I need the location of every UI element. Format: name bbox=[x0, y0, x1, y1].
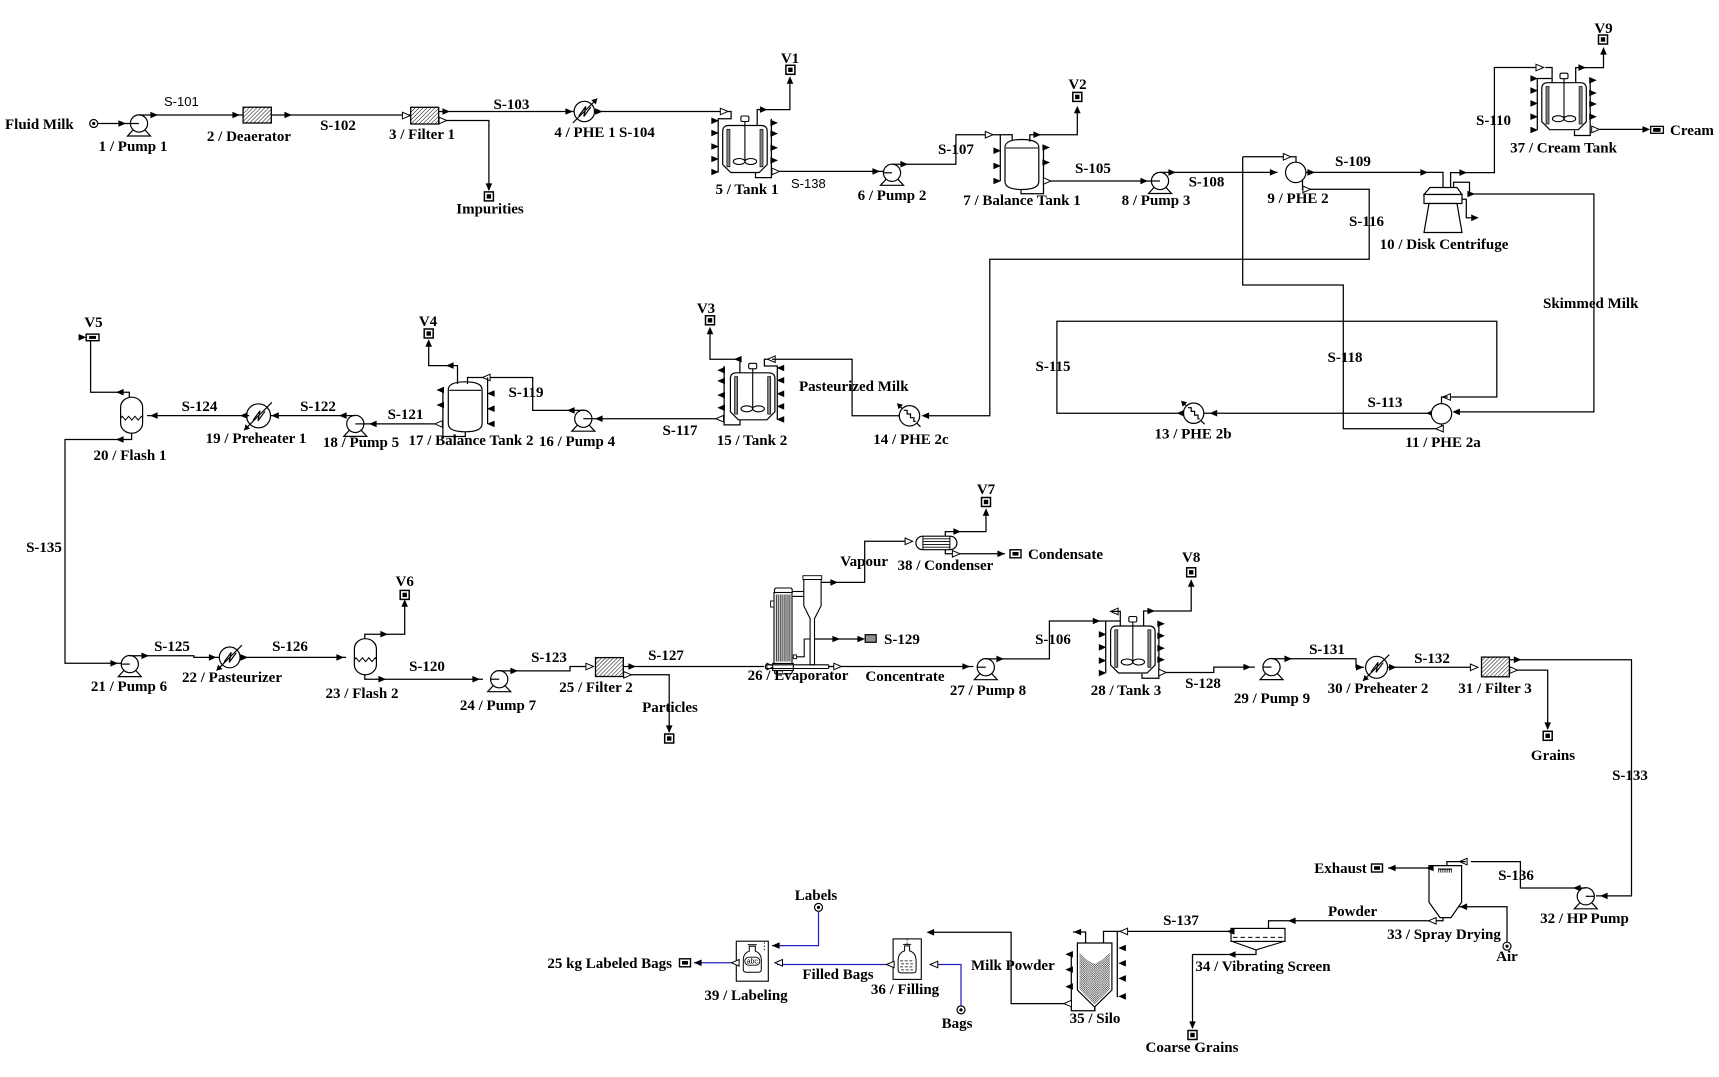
svg-text:V6: V6 bbox=[396, 574, 415, 590]
svg-text:V4: V4 bbox=[419, 314, 438, 330]
svg-text:S-127: S-127 bbox=[648, 648, 684, 664]
svg-text:S-108: S-108 bbox=[1189, 175, 1225, 191]
svg-text:S-105: S-105 bbox=[1075, 161, 1111, 177]
svg-text:S-133: S-133 bbox=[1612, 768, 1648, 784]
svg-text:Powder: Powder bbox=[1328, 904, 1377, 920]
svg-text:abc: abc bbox=[747, 959, 759, 966]
svg-text:S-113: S-113 bbox=[1367, 395, 1402, 411]
svg-text:16 / Pump 4: 16 / Pump 4 bbox=[539, 434, 616, 450]
svg-text:S-101: S-101 bbox=[164, 94, 199, 109]
svg-text:7 / Balance Tank 1: 7 / Balance Tank 1 bbox=[963, 193, 1081, 209]
svg-text:S-107: S-107 bbox=[938, 142, 974, 158]
svg-text:13 / PHE 2b: 13 / PHE 2b bbox=[1154, 427, 1231, 443]
svg-text:S-129: S-129 bbox=[884, 632, 920, 648]
svg-text:14 / PHE 2c: 14 / PHE 2c bbox=[873, 432, 949, 448]
svg-text:34 / Vibrating Screen: 34 / Vibrating Screen bbox=[1195, 959, 1331, 975]
svg-text:35 / Silo: 35 / Silo bbox=[1070, 1011, 1121, 1027]
svg-text:33 / Spray Drying: 33 / Spray Drying bbox=[1387, 927, 1501, 943]
svg-text:10 / Disk Centrifuge: 10 / Disk Centrifuge bbox=[1380, 237, 1509, 253]
svg-text:24 / Pump 7: 24 / Pump 7 bbox=[460, 698, 537, 714]
svg-text:Particles: Particles bbox=[642, 700, 698, 716]
svg-text:S-118: S-118 bbox=[1327, 350, 1362, 366]
svg-text:S-126: S-126 bbox=[272, 639, 308, 655]
svg-text:S-128: S-128 bbox=[1185, 676, 1221, 692]
svg-text:S-115: S-115 bbox=[1035, 359, 1070, 375]
svg-text:36 / Filling: 36 / Filling bbox=[871, 982, 940, 998]
svg-text:S-125: S-125 bbox=[154, 639, 190, 655]
svg-text:V7: V7 bbox=[977, 482, 996, 498]
svg-text:S-117: S-117 bbox=[662, 423, 698, 439]
svg-text:19 / Preheater 1: 19 / Preheater 1 bbox=[206, 431, 307, 447]
svg-text:20 / Flash 1: 20 / Flash 1 bbox=[94, 448, 167, 464]
svg-text:Skimmed Milk: Skimmed Milk bbox=[1543, 296, 1639, 312]
svg-text:S-122: S-122 bbox=[300, 399, 336, 415]
svg-text:Impurities: Impurities bbox=[456, 202, 524, 218]
svg-text:29 / Pump 9: 29 / Pump 9 bbox=[1234, 691, 1310, 707]
svg-text:V3: V3 bbox=[697, 301, 715, 317]
svg-text:S-131: S-131 bbox=[1309, 642, 1345, 658]
svg-text:38 / Condenser: 38 / Condenser bbox=[898, 558, 994, 574]
svg-text:31 / Filter 3: 31 / Filter 3 bbox=[1458, 681, 1531, 697]
svg-text:S-110: S-110 bbox=[1476, 113, 1511, 129]
svg-text:Milk Powder: Milk Powder bbox=[971, 958, 1055, 974]
svg-text:11 / PHE 2a: 11 / PHE 2a bbox=[1405, 435, 1481, 451]
svg-text:22 / Pasteurizer: 22 / Pasteurizer bbox=[182, 670, 282, 686]
svg-text:28 / Tank 3: 28 / Tank 3 bbox=[1091, 683, 1161, 699]
svg-text:25 / Filter 2: 25 / Filter 2 bbox=[559, 680, 632, 696]
svg-text:Fluid Milk: Fluid Milk bbox=[5, 117, 74, 133]
svg-text:2 / Deaerator: 2 / Deaerator bbox=[207, 129, 291, 145]
svg-text:9 / PHE 2: 9 / PHE 2 bbox=[1267, 191, 1328, 207]
svg-text:3 / Filter 1: 3 / Filter 1 bbox=[389, 127, 455, 143]
svg-text:S-123: S-123 bbox=[531, 650, 567, 666]
svg-text:6 / Pump 2: 6 / Pump 2 bbox=[858, 188, 927, 204]
svg-text:S-124: S-124 bbox=[182, 399, 218, 415]
svg-text:39 / Labeling: 39 / Labeling bbox=[704, 988, 788, 1004]
svg-text:V9: V9 bbox=[1594, 21, 1612, 37]
svg-text:S-109: S-109 bbox=[1335, 154, 1371, 170]
svg-text:S-136: S-136 bbox=[1498, 868, 1534, 884]
svg-text:4 / PHE 1: 4 / PHE 1 bbox=[554, 125, 615, 141]
svg-text:V2: V2 bbox=[1068, 77, 1086, 93]
svg-text:V5: V5 bbox=[84, 315, 102, 331]
svg-text:S-106: S-106 bbox=[1035, 632, 1071, 648]
svg-text:Grains: Grains bbox=[1531, 748, 1575, 764]
svg-text:30 / Preheater 2: 30 / Preheater 2 bbox=[1328, 681, 1429, 697]
svg-text:Pasteurized Milk: Pasteurized Milk bbox=[799, 379, 909, 395]
svg-text:S-135: S-135 bbox=[26, 540, 62, 556]
svg-text:S-120: S-120 bbox=[409, 659, 445, 675]
svg-text:25 kg Labeled Bags: 25 kg Labeled Bags bbox=[547, 956, 672, 972]
svg-text:8 / Pump 3: 8 / Pump 3 bbox=[1122, 193, 1191, 209]
svg-text:18 / Pump 5: 18 / Pump 5 bbox=[323, 435, 399, 451]
svg-text:17 / Balance Tank 2: 17 / Balance Tank 2 bbox=[408, 433, 533, 449]
svg-text:15 / Tank 2: 15 / Tank 2 bbox=[717, 433, 787, 449]
svg-text:Vapour: Vapour bbox=[840, 554, 888, 570]
svg-text:Bags: Bags bbox=[942, 1016, 973, 1032]
svg-text:5 / Tank 1: 5 / Tank 1 bbox=[716, 182, 779, 198]
svg-text:S-137: S-137 bbox=[1163, 913, 1199, 929]
svg-text:Concentrate: Concentrate bbox=[865, 669, 944, 685]
svg-text:1 / Pump 1: 1 / Pump 1 bbox=[99, 139, 168, 155]
svg-text:V8: V8 bbox=[1182, 550, 1200, 566]
svg-text:32 / HP Pump: 32 / HP Pump bbox=[1540, 911, 1629, 927]
svg-text:37 / Cream Tank: 37 / Cream Tank bbox=[1510, 141, 1617, 157]
svg-text:Labels: Labels bbox=[795, 888, 838, 904]
svg-text:S-132: S-132 bbox=[1414, 651, 1450, 667]
svg-text:S-116: S-116 bbox=[1349, 214, 1385, 230]
svg-text:S-103: S-103 bbox=[494, 97, 530, 113]
svg-text:S-138: S-138 bbox=[791, 176, 826, 191]
svg-text:23 / Flash 2: 23 / Flash 2 bbox=[326, 686, 399, 702]
svg-text:S-104: S-104 bbox=[619, 125, 655, 141]
svg-text:Exhaust: Exhaust bbox=[1314, 861, 1367, 877]
svg-text:27 / Pump 8: 27 / Pump 8 bbox=[950, 683, 1026, 699]
svg-text:S-121: S-121 bbox=[388, 407, 424, 423]
svg-text:Filled Bags: Filled Bags bbox=[802, 967, 873, 983]
svg-text:Air: Air bbox=[1496, 949, 1518, 965]
svg-text:21 / Pump 6: 21 / Pump 6 bbox=[91, 679, 168, 695]
svg-text:Condensate: Condensate bbox=[1028, 547, 1103, 563]
svg-text:S-102: S-102 bbox=[320, 118, 356, 134]
svg-text:S-119: S-119 bbox=[508, 385, 543, 401]
svg-text:Coarse Grains: Coarse Grains bbox=[1146, 1040, 1239, 1056]
svg-text:Cream: Cream bbox=[1670, 123, 1714, 139]
